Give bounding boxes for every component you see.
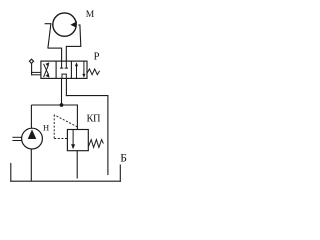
motor bracket left flange <box>45 23 52 25</box>
relief valve spring <box>88 140 103 148</box>
valve square2 blocked port B stub <box>65 61 68 68</box>
motor M circle <box>53 13 76 36</box>
valve border 1-2 <box>55 61 57 78</box>
tank left wall <box>10 163 12 182</box>
svg-text:Р: Р <box>94 52 100 63</box>
valve square3 arrow down <box>82 61 85 78</box>
wire pump outlet vertical <box>30 105 32 129</box>
svg-text:Н: Н <box>43 123 49 133</box>
motor bracket left vertical <box>48 24 51 48</box>
wire valve port A up pipe <box>61 48 63 62</box>
motor bracket right vertical <box>79 25 82 47</box>
tank bottom <box>10 180 121 182</box>
wire valve P port down pipe <box>61 78 63 105</box>
relief valve internal arrow <box>72 130 74 145</box>
pump H circle <box>22 128 43 149</box>
wire pump suction vertical <box>30 149 32 181</box>
valve P body <box>41 61 87 78</box>
wire relief valve outlet <box>76 151 78 179</box>
relief valve KP box <box>67 130 88 151</box>
wire valve T port down pipe <box>65 78 67 96</box>
lever knob <box>29 59 33 63</box>
wire motor left horizontal <box>48 47 62 49</box>
valve border 2-3 <box>70 61 72 78</box>
valve square2 blocked bottom stubs <box>61 74 66 78</box>
valve square2 blocked port A stub <box>60 61 63 68</box>
valve spring <box>87 69 100 75</box>
motor bracket right flange <box>78 24 80 26</box>
svg-text:Б: Б <box>120 151 127 164</box>
wire valve port B up pipe <box>65 46 67 61</box>
pump outlet triangle <box>28 129 37 139</box>
svg-text:КП: КП <box>87 113 102 124</box>
valve square3 arrow up <box>75 62 78 78</box>
wire T return horizontal <box>66 95 108 97</box>
wire pump to junction to relief horizontal <box>31 104 78 106</box>
lever stem <box>31 63 33 75</box>
wire motor right horizontal <box>66 45 81 47</box>
tank right wall <box>119 165 121 182</box>
junction node <box>60 103 64 107</box>
pilot dashed line <box>54 115 77 139</box>
lever link lines <box>31 72 41 74</box>
wire T return vertical to tank <box>107 95 109 175</box>
motor rotation arrowhead <box>70 21 77 27</box>
svg-text:М: М <box>86 10 95 20</box>
pump shaft lines <box>12 137 21 140</box>
valve square1 crossed arrows <box>44 62 50 78</box>
wire relief valve inlet vertical <box>76 104 78 129</box>
